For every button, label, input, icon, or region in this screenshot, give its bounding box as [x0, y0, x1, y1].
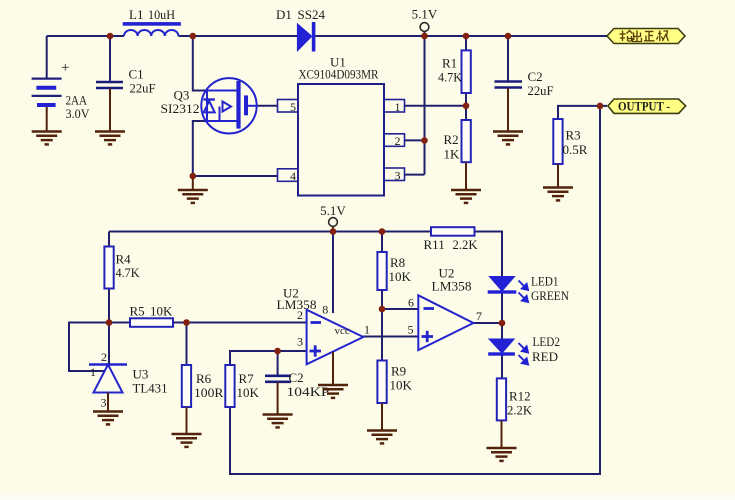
- resistor R5 10K: [130, 318, 173, 327]
- svg-text:10K: 10K: [389, 269, 412, 284]
- svg-text:100R: 100R: [194, 385, 224, 400]
- ground C2: [493, 132, 523, 145]
- svg-text:10K: 10K: [237, 385, 260, 400]
- wire U1 pin 3 stub: [405, 174, 425, 176]
- wire LED1 bottom to LED2 top: [501, 294, 503, 340]
- wire R3 bottom: [557, 164, 559, 188]
- capacitor C2 22uF: [495, 82, 523, 88]
- svg-text:22uF: 22uF: [130, 81, 156, 96]
- svg-text:R8: R8: [390, 255, 405, 270]
- resistor R2 1K: [462, 120, 471, 162]
- shunt regulator U3 TL431: [89, 365, 127, 393]
- transistor Q3 internal structure: [207, 91, 237, 122]
- svg-text:U3: U3: [133, 367, 149, 382]
- diode D1 SS24: [297, 24, 311, 51]
- op-amp2 minus sign: [424, 307, 435, 310]
- text flag chinese: [620, 31, 669, 42]
- wire R11 right to LED string corner: [475, 232, 503, 277]
- junction node R5 right: [183, 319, 190, 326]
- svg-text:R6: R6: [196, 371, 212, 386]
- wire pin6 node to R9: [381, 309, 383, 361]
- junction node L1 right: [190, 33, 197, 40]
- svg-text:10K: 10K: [390, 378, 413, 393]
- wire top rail battery to L1: [47, 35, 124, 37]
- op-amp U2 first LM358: [307, 310, 364, 365]
- resistor R6 100R: [182, 365, 191, 407]
- wire 5.1V vertical to U1 pins 2 and 3: [424, 32, 426, 175]
- svg-text:8: 8: [322, 303, 328, 317]
- wire Q3 source to ground node: [193, 121, 207, 176]
- svg-text:SS24: SS24: [298, 7, 326, 22]
- svg-text:2: 2: [101, 350, 107, 364]
- junction node OUTPUT-: [597, 103, 604, 110]
- svg-text:LM358: LM358: [432, 279, 472, 294]
- wire Q3 gate to U1 pin 5: [258, 105, 278, 107]
- wire L1 to D1 anode: [179, 35, 298, 37]
- svg-text:1: 1: [395, 100, 401, 114]
- svg-text:XC9104D093MR: XC9104D093MR: [299, 67, 379, 82]
- wire Q3 source node to U1 pin 4: [193, 175, 278, 177]
- resistor R8 10K: [377, 252, 386, 290]
- wire pin 6 stub: [382, 308, 418, 310]
- U1 pin 4 box: [278, 169, 299, 182]
- svg-text:6: 6: [408, 296, 414, 310]
- svg-text:TL431: TL431: [133, 381, 168, 396]
- junction node R1 bottom: [463, 103, 470, 110]
- wire R5 right to op-amp pin 2: [173, 322, 307, 324]
- junction node 5.1V top: [421, 33, 428, 40]
- power port 5.1V lower: [329, 218, 338, 227]
- svg-text:R9: R9: [391, 364, 406, 379]
- wire U3 anode to ground: [107, 393, 109, 412]
- op IC U1 XC9104D093MR body: [298, 84, 384, 196]
- wire Q3 drain from L1 node: [193, 36, 207, 91]
- wire OUTPUT- feedback loop to R7 bottom: [230, 106, 600, 474]
- svg-text:GREEN: GREEN: [531, 288, 570, 303]
- wire R6 bottom: [186, 407, 188, 434]
- U1 pin 3 box: [384, 168, 405, 181]
- wire R4 top: [108, 232, 110, 247]
- op-amp1 plus sign: [310, 345, 322, 356]
- net flag OUTPUT -: [608, 99, 686, 113]
- ground R12: [487, 448, 517, 461]
- wire U1 pin 2 stub: [405, 139, 425, 141]
- wire U1 pin 1 to R1/R2 node: [405, 105, 467, 107]
- wire R1 bottom to R2 top: [465, 93, 467, 120]
- svg-text:7: 7: [476, 309, 482, 323]
- svg-text:1: 1: [90, 365, 96, 379]
- svg-text:LED1: LED1: [531, 274, 559, 289]
- svg-text:2: 2: [395, 134, 401, 148]
- inductor L1 10uH: [124, 30, 178, 36]
- svg-text:5: 5: [290, 100, 296, 114]
- svg-text:OUTPUT -: OUTPUT -: [618, 99, 670, 114]
- resistor R3 0.5R: [553, 119, 562, 164]
- LED1 GREEN: [489, 277, 514, 292]
- junction node pin 6: [379, 306, 386, 313]
- ground Q3 source: [192, 176, 194, 190]
- op-amp1 minus sign: [311, 321, 322, 324]
- wire R12 bottom: [501, 420, 503, 448]
- resistor R7 10K: [225, 365, 234, 407]
- transistor Q3 body diode: [204, 100, 215, 113]
- resistor R4 4.7K: [104, 247, 113, 289]
- wire battery positive up: [46, 36, 48, 78]
- svg-text:10K: 10K: [150, 304, 173, 319]
- power port 5.1V top: [420, 23, 429, 32]
- svg-text:R1: R1: [442, 56, 457, 71]
- junction node C2 top: [505, 33, 512, 40]
- capacitor C3 104KP: [265, 376, 291, 382]
- junction node R1 top: [463, 33, 470, 40]
- wire op-amp1 output to op-amp2 pin 5: [363, 336, 418, 338]
- junction node LED node: [499, 320, 506, 327]
- battery BT 2AA 3.0V: [32, 79, 62, 105]
- junction node Q3 source ground: [190, 173, 197, 180]
- svg-text:C2: C2: [528, 69, 543, 84]
- inductor L1 bar: [123, 22, 181, 26]
- svg-text:1K: 1K: [444, 147, 461, 162]
- wire C3 top: [277, 351, 279, 375]
- op-amp2 plus sign: [422, 331, 434, 342]
- svg-text:R11: R11: [424, 237, 445, 252]
- svg-text:4.7K: 4.7K: [116, 265, 141, 280]
- transistor Q3 gate bar: [244, 95, 248, 115]
- LED2 RED: [489, 339, 514, 353]
- svg-text:2.2K: 2.2K: [507, 403, 533, 418]
- svg-text:R12: R12: [509, 389, 531, 404]
- wire C1 bottom to ground: [109, 89, 111, 132]
- svg-text:3: 3: [297, 335, 303, 349]
- wire LED2 bottom to R12: [501, 356, 503, 379]
- svg-text:3: 3: [101, 396, 107, 410]
- wire D1 cathode to output flag: [315, 35, 607, 37]
- wire battery negative: [46, 107, 48, 132]
- op-amp1 ground: [332, 352, 334, 385]
- wire R8 bottom to pin 6 node: [381, 290, 383, 309]
- resistor R9 10K: [377, 361, 386, 404]
- svg-text:L1: L1: [129, 7, 143, 22]
- wire R5 left stub: [109, 322, 130, 324]
- U1 pin 1 box: [384, 100, 405, 113]
- transistor Q3 channel bar: [236, 81, 240, 129]
- diode D1 cathode bar: [312, 22, 316, 52]
- wire R4 bottom to node: [108, 289, 110, 323]
- wire R5 net left loop: [69, 323, 109, 372]
- svg-text:R5: R5: [130, 304, 145, 319]
- transistor Q3 SI2312 MOSFET circle: [201, 78, 256, 133]
- svg-text:RED: RED: [532, 349, 558, 364]
- wire 5.1V to op-amp pin 8: [332, 232, 334, 314]
- op-amp U2 second LM358: [418, 295, 473, 350]
- svg-text:3: 3: [395, 168, 401, 182]
- junction node U1 pin 2: [421, 137, 428, 144]
- svg-text:4.7K: 4.7K: [438, 70, 463, 85]
- ground R6: [172, 434, 202, 447]
- LED1 arrows: [519, 281, 529, 303]
- net flag output positive: [607, 29, 685, 44]
- svg-text:D1: D1: [276, 7, 292, 22]
- svg-text:22uF: 22uF: [528, 83, 554, 98]
- wire R6 top: [186, 323, 188, 366]
- resistor R12 2.2K: [497, 378, 506, 420]
- wire R7 top to op-amp pin 3: [230, 351, 307, 365]
- svg-text:R3: R3: [566, 128, 581, 143]
- U1 pin 5 box: [278, 100, 299, 113]
- svg-text:4: 4: [290, 169, 296, 183]
- svg-text:1: 1: [364, 323, 370, 337]
- svg-text:5: 5: [408, 323, 414, 337]
- svg-text:R7: R7: [239, 371, 255, 386]
- wire R8 top: [381, 232, 383, 253]
- svg-text:10uH: 10uH: [148, 7, 175, 22]
- wire C2 top: [507, 36, 509, 81]
- svg-text:C1: C1: [129, 67, 144, 82]
- svg-text:vcc: vcc: [335, 325, 350, 337]
- svg-text:2: 2: [297, 308, 303, 322]
- wire R2 bottom: [465, 162, 467, 190]
- wire C1 top: [109, 36, 111, 81]
- svg-text:SI2312: SI2312: [161, 101, 200, 116]
- junction node C1 top: [107, 33, 114, 40]
- wire R9 bottom: [381, 403, 383, 431]
- junction node R4 bottom: [106, 319, 113, 326]
- junction node 5.1V lower: [330, 228, 337, 235]
- svg-text:5.1V: 5.1V: [412, 7, 438, 22]
- wire C3 bottom: [277, 382, 279, 414]
- svg-text:2.2K: 2.2K: [453, 237, 479, 252]
- ground R9: [367, 431, 397, 444]
- wire C2 bottom to ground: [507, 88, 509, 132]
- resistor R1 4.7K: [462, 50, 471, 93]
- svg-text:LED2: LED2: [533, 334, 561, 349]
- wire lower rail: [109, 231, 431, 233]
- junction node R8 top: [379, 228, 386, 235]
- junction node C3 top: [274, 348, 281, 355]
- ground R3: [543, 188, 573, 201]
- U1 pin 2 box: [384, 134, 405, 147]
- svg-text:C2: C2: [289, 370, 304, 385]
- svg-text:+: +: [61, 60, 69, 76]
- resistor R11 2.2K: [431, 227, 475, 236]
- wire R1 top: [465, 36, 467, 50]
- bottom light band: [0, 494, 735, 500]
- svg-text:5.1V: 5.1V: [320, 203, 346, 218]
- ground C1: [95, 132, 125, 145]
- ground battery: [32, 132, 62, 145]
- ground C3: [263, 415, 293, 428]
- ground U3: [93, 412, 123, 425]
- svg-text:R2: R2: [444, 132, 459, 147]
- LED2 arrows: [519, 343, 529, 365]
- wire node to U3 cathode: [108, 323, 110, 365]
- capacitor C1 22uF: [96, 82, 123, 88]
- transistor Q3 arrow: [223, 102, 232, 112]
- ground R2: [451, 190, 481, 203]
- svg-text:0.5R: 0.5R: [563, 142, 588, 157]
- wire op-amp2 output to LED node: [473, 322, 502, 324]
- svg-text:3.0V: 3.0V: [66, 106, 91, 121]
- wire R3 top to OUTPUT- flag: [558, 106, 607, 119]
- transistor Q3 gate lead: [248, 105, 258, 107]
